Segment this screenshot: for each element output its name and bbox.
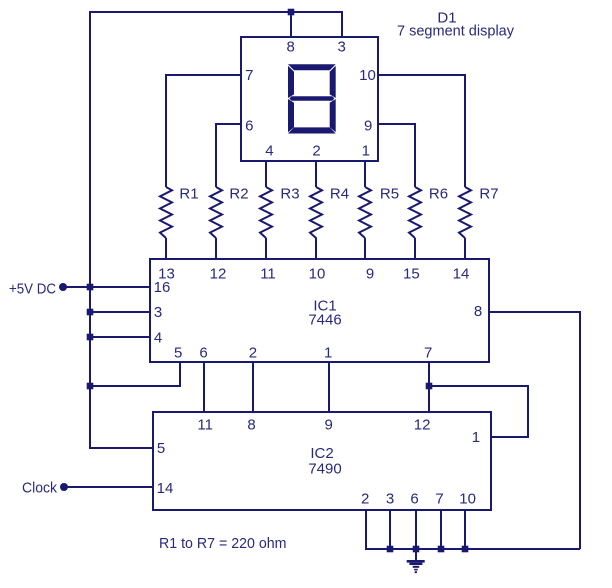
- wire IC1 pin 2 to IC2 pin 8: [252, 362, 254, 412]
- wire IC1 pin 6 to IC2 pin 11: [203, 362, 205, 412]
- svg-text:4: 4: [265, 142, 273, 159]
- svg-text:1: 1: [472, 429, 480, 446]
- resistor R5: [359, 187, 371, 238]
- svg-text:4: 4: [154, 329, 162, 346]
- junction dot bus pin 7: [438, 546, 445, 553]
- wire IC2 pin 10 to bus: [464, 510, 466, 549]
- svg-text:R3: R3: [280, 186, 299, 203]
- svg-text:2: 2: [361, 491, 369, 508]
- segment G middle: [289, 96, 334, 101]
- svg-text:15: 15: [403, 265, 420, 282]
- wire IC1 pin 7 to IC2 pin 12: [428, 362, 430, 412]
- resistor R3: [260, 187, 272, 238]
- ground stub: [415, 549, 417, 560]
- svg-text:R2: R2: [229, 186, 248, 203]
- svg-text:7: 7: [245, 67, 253, 84]
- svg-text:7: 7: [424, 345, 432, 362]
- wire IC2 pin 6 to bus: [415, 510, 417, 549]
- wire rail to IC1 pin 3: [90, 311, 150, 313]
- svg-text:R6: R6: [429, 186, 448, 203]
- terminal dot +5V DC: [59, 283, 67, 291]
- wire IC1 pin 5 to rail: [90, 362, 180, 386]
- svg-text:2: 2: [312, 142, 320, 159]
- svg-text:12: 12: [414, 417, 431, 434]
- svg-text:6: 6: [199, 345, 207, 362]
- svg-text:9: 9: [366, 265, 374, 282]
- svg-text:14: 14: [157, 480, 174, 497]
- svg-text:9: 9: [364, 118, 372, 135]
- svg-text:6: 6: [410, 491, 418, 508]
- wire display pin 1 to R5: [364, 161, 366, 187]
- svg-text:12: 12: [210, 265, 227, 282]
- junction dot rail pin 5: [87, 383, 94, 390]
- svg-text:10: 10: [459, 491, 476, 508]
- wire display pin 2 to R4: [315, 161, 317, 187]
- junction dot top rail pin 8: [288, 9, 295, 16]
- wire IC2 pin 3 to bus: [389, 510, 391, 549]
- svg-text:7 segment display: 7 segment display: [397, 23, 514, 40]
- svg-text:5: 5: [174, 345, 182, 362]
- wire IC1 pin 1 to IC2 pin 9: [328, 362, 330, 412]
- svg-text:8: 8: [247, 417, 255, 434]
- svg-text:R7: R7: [479, 186, 498, 203]
- junction dot pin 7 branch: [426, 383, 433, 390]
- svg-text:8: 8: [474, 303, 482, 320]
- ground bar 1: [407, 560, 425, 563]
- svg-text:7: 7: [435, 491, 443, 508]
- svg-text:3: 3: [154, 304, 162, 321]
- wire IC1 pin 8 to ground bus: [489, 312, 580, 549]
- svg-text:R1 to R7 = 220 ohm: R1 to R7 = 220 ohm: [159, 535, 287, 552]
- svg-text:5: 5: [157, 440, 165, 457]
- svg-text:1: 1: [324, 345, 332, 362]
- junction dot rail pin 16: [87, 284, 94, 291]
- segment E bottom-left: [288, 99, 294, 132]
- junction dot rail pin 3: [87, 309, 94, 316]
- svg-text:14: 14: [453, 265, 470, 282]
- resistor R4: [310, 187, 322, 238]
- wire display pin 4 to R3: [265, 161, 267, 187]
- wire R6 to IC1 pin 15: [414, 238, 416, 259]
- svg-text:11: 11: [260, 265, 276, 282]
- wire rail to IC1 pin 4: [90, 336, 150, 338]
- svg-text:R1: R1: [179, 186, 198, 203]
- svg-text:1: 1: [362, 142, 370, 159]
- wire Clock to IC2 pin 14: [64, 486, 153, 488]
- segment D bottom: [288, 127, 336, 133]
- svg-text:7490: 7490: [308, 461, 341, 478]
- svg-text:+5V DC: +5V DC: [9, 280, 56, 297]
- svg-text:R5: R5: [380, 186, 399, 203]
- svg-text:2: 2: [249, 345, 257, 362]
- segment B top-right: [330, 66, 336, 98]
- resistor R7: [459, 187, 471, 238]
- junction dot bus pin 10: [462, 546, 469, 553]
- wire +5V DC to IC1 pin 16: [63, 286, 150, 288]
- IC2 box: [153, 412, 491, 510]
- wire R7 to IC1 pin 14: [464, 238, 466, 259]
- svg-text:9: 9: [325, 417, 333, 434]
- wire display pin 6 to R2: [216, 124, 241, 187]
- wire display pin 10 to R7: [378, 75, 465, 187]
- svg-text:16: 16: [154, 279, 171, 296]
- junction dot rail pin 4: [87, 334, 94, 341]
- svg-text:7446: 7446: [308, 312, 341, 329]
- svg-text:10: 10: [359, 67, 376, 84]
- wire R4 to IC1 pin 10: [315, 238, 317, 260]
- ground bar 4: [414, 569, 418, 571]
- display D1 box: [241, 37, 378, 161]
- wire display pin 9 to R6: [378, 124, 415, 187]
- IC1 box: [150, 259, 489, 362]
- wire R5 to IC1 pin 9: [364, 238, 366, 259]
- wire IC2 pin 2 to bus: [366, 510, 580, 549]
- wire R3 to IC1 pin 11: [265, 238, 267, 259]
- wire R1 to IC1 pin 13: [165, 238, 167, 259]
- ground dot: [415, 571, 417, 573]
- wire display pin 8 drop: [290, 12, 292, 36]
- svg-text:3: 3: [386, 491, 394, 508]
- wire IC2 pin 7 to bus: [440, 510, 442, 549]
- segment A top: [288, 64, 336, 70]
- junction dot bus pin 3: [387, 546, 394, 553]
- wire R2 to IC1 pin 12: [215, 238, 217, 259]
- segment F top-left: [288, 66, 294, 98]
- svg-text:11: 11: [197, 417, 213, 434]
- resistor R6: [409, 187, 421, 238]
- resistor R1: [160, 187, 172, 238]
- svg-text:Clock: Clock: [22, 480, 57, 497]
- resistor R2: [210, 187, 222, 238]
- ground bar 2: [409, 563, 422, 565]
- wire top rail: [90, 12, 342, 448]
- terminal dot Clock: [60, 483, 68, 491]
- segment C bottom-right: [330, 99, 336, 132]
- svg-text:6: 6: [245, 118, 253, 135]
- ground bar 3: [413, 566, 420, 568]
- wire display pin 7 to R1: [166, 75, 241, 187]
- wire junction pin7 to IC2 pin 1: [429, 386, 528, 437]
- svg-text:3: 3: [338, 39, 346, 56]
- junction dot bus pin 6: [413, 546, 420, 553]
- svg-text:10: 10: [309, 265, 326, 282]
- svg-text:R4: R4: [330, 186, 349, 203]
- svg-text:8: 8: [287, 39, 295, 56]
